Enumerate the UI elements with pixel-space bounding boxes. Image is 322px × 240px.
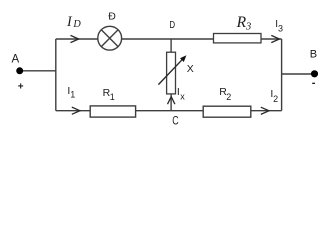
svg-text:-: - [312,77,316,89]
current arrow I_3 on top wire [271,35,279,42]
svg-text:2: 2 [226,92,231,102]
svg-text:D: D [169,20,175,31]
wire node A lead [21,70,56,72]
current arrow I_x on middle branch (pointing up) [168,97,175,105]
svg-text:C: C [172,113,179,127]
svg-text:3: 3 [278,24,283,34]
svg-text:x: x [180,92,185,102]
svg-text:3: 3 [245,21,251,32]
wire right bus (B vertical) [281,39,283,111]
svg-text:2: 2 [273,94,278,104]
svg-text:+: + [18,81,24,92]
wire bottom segment right [251,110,282,112]
current arrow I_2 on bottom wire [261,107,269,114]
wire node B lead [282,73,313,75]
rheostat X diagonal arrow shaft [158,60,182,85]
svg-text:R: R [236,14,247,31]
svg-text:Đ: Đ [108,11,116,23]
svg-text:D: D [72,19,81,30]
wire top left segment [56,38,98,40]
svg-text:X: X [187,63,194,75]
node A terminal dot [16,67,23,74]
node B terminal dot [311,70,318,77]
wire left bus (A vertical) [55,39,57,111]
svg-text:1: 1 [110,92,115,102]
wire bottom segment left [56,110,90,112]
wire top middle segment [122,38,214,40]
svg-text:I: I [66,14,73,30]
svg-text:1: 1 [70,90,75,100]
wire top right segment [261,38,282,40]
svg-text:A: A [12,54,20,66]
svg-text:B: B [310,49,317,61]
current arrow I_D on top wire [71,35,79,42]
rheostat X (vertical box) [167,52,176,94]
rheostat X diagonal arrowhead [180,55,186,62]
resistor R2 [203,106,251,117]
current arrow I_1 on bottom wire [72,107,80,114]
resistor R3 [214,34,262,43]
wire middle branch bottom (X to C) [170,94,172,111]
wire bottom segment middle [135,110,203,112]
resistor R1 [90,106,135,117]
lamp D (circle with X) [98,26,122,50]
wire middle branch top (D to X) [170,39,172,52]
